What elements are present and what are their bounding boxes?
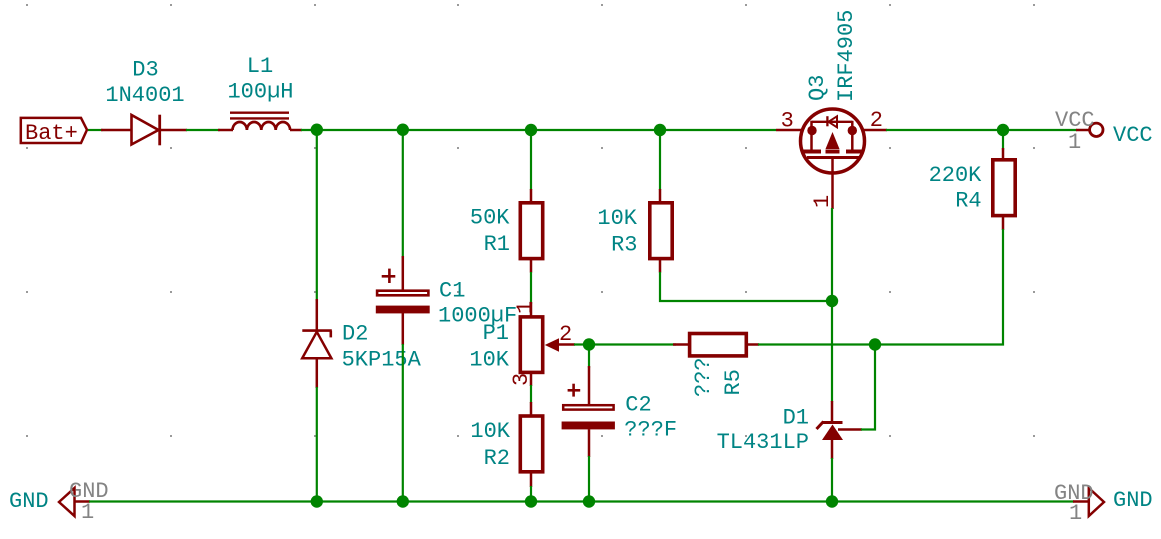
svg-text:C2: C2 [625, 393, 651, 418]
global label Bat+ [21, 118, 87, 146]
R4 reference label [955, 189, 981, 214]
wire C1 branch lower [402, 344, 404, 502]
wire Q3 pin2 to VCC [886, 129, 1077, 131]
svg-text:10K: 10K [469, 348, 509, 373]
junction gate node [826, 295, 838, 307]
D3 value label 1N4001 [105, 83, 184, 108]
wire D2 branch upper [316, 130, 318, 301]
R5 reference label [721, 369, 746, 395]
C1 value label 1000uF [438, 304, 517, 329]
svg-text:???F: ???F [624, 418, 677, 443]
resistor R2 [520, 402, 542, 487]
Q3 pin number 1 [810, 195, 835, 208]
svg-text:GND: GND [9, 489, 49, 514]
svg-text:C1: C1 [439, 279, 465, 304]
P1 reference label [483, 321, 509, 346]
svg-text:VCC: VCC [1113, 123, 1153, 148]
wire C2 bottom to rail [588, 456, 590, 502]
svg-text:50K: 50K [470, 206, 510, 231]
svg-text:R4: R4 [955, 189, 981, 214]
diode D3 [101, 115, 187, 146]
node GND label left [9, 489, 49, 514]
wire P1 to R2 [530, 385, 532, 403]
D2 reference label [342, 322, 368, 347]
shunt reference D1 TL431LP [817, 401, 863, 459]
junction top rail at C1 [397, 124, 409, 136]
capacitor C2 [562, 366, 615, 457]
wire R4 bottom to feedback node [877, 229, 1003, 345]
svg-text:R1: R1 [484, 232, 510, 257]
svg-text:D3: D3 [132, 58, 158, 83]
R3 reference label [611, 233, 637, 258]
svg-text:TL431LP: TL431LP [717, 430, 809, 455]
svg-text:R5: R5 [721, 369, 746, 395]
L1 value label 100uH [227, 80, 293, 105]
wire R2 bottom to rail [530, 486, 532, 502]
wire R3 top pin stub [659, 130, 661, 190]
svg-text:???: ??? [691, 357, 716, 397]
C2 value label ???F [624, 418, 677, 443]
C1 reference label [439, 279, 465, 304]
wire L1 to Q3 (top rail) [301, 129, 776, 131]
wire R4 top pin stub [1002, 130, 1004, 150]
junction bottom rail at D2 [311, 495, 323, 507]
node VCC label [1113, 123, 1153, 148]
Q3 pin number 2 [870, 108, 883, 133]
junction bottom rail at R2 [525, 495, 537, 507]
svg-text:1: 1 [810, 195, 835, 208]
wire C2 top stub [588, 345, 590, 369]
P1 pin number 3 [509, 373, 534, 386]
diode D2 (TVS) [302, 299, 332, 388]
D3 reference label [132, 58, 158, 83]
svg-text:2: 2 [870, 108, 883, 133]
GND left pin name [69, 479, 109, 504]
svg-text:P1: P1 [483, 321, 509, 346]
junction wiper node at C2 [583, 338, 595, 350]
svg-text:L1: L1 [247, 54, 273, 79]
Q3 reference label [805, 75, 830, 101]
power port GND right [1073, 488, 1104, 516]
inductor L1 [218, 113, 302, 130]
junction bottom rail at D1 [826, 495, 838, 507]
wire Bat+ to D3 [88, 129, 103, 131]
node GND label right [1113, 488, 1153, 513]
wire R3 bottom to Q3 gate node [660, 272, 832, 301]
GND right pin name [1054, 481, 1094, 506]
R5 value label ??? [691, 357, 716, 397]
svg-text:100µH: 100µH [227, 80, 293, 105]
wire gate node to D1 cathode [831, 301, 833, 402]
power port VCC [1076, 123, 1103, 136]
potentiometer P1 [520, 302, 575, 386]
svg-text:220K: 220K [929, 163, 983, 188]
wire D2 branch lower [316, 387, 318, 502]
wire R1 top pin stub [530, 130, 532, 190]
svg-text:Bat+: Bat+ [25, 121, 78, 146]
VCC pin name [1055, 108, 1095, 133]
R1 reference label [484, 232, 510, 257]
svg-text:R3: R3 [611, 233, 637, 258]
R2 reference label [484, 446, 510, 471]
svg-text:3: 3 [509, 373, 534, 386]
svg-text:1: 1 [81, 500, 94, 525]
R3 value label 10K [597, 206, 637, 231]
svg-text:R2: R2 [484, 446, 510, 471]
L1 reference label [247, 54, 273, 79]
wire R1 to P1 [530, 272, 532, 304]
wire D1 anode to rail [831, 458, 833, 502]
svg-text:5KP15A: 5KP15A [342, 348, 422, 373]
P1 pin number 1 [513, 301, 538, 314]
wire bottom rail [89, 500, 1074, 502]
svg-text:1: 1 [513, 301, 538, 314]
Q3 pin number 3 [781, 109, 794, 134]
resistor R5 [673, 334, 759, 356]
svg-text:Q3: Q3 [805, 75, 830, 101]
svg-text:D1: D1 [783, 406, 809, 431]
wire feedback node to D1 ref [861, 345, 875, 430]
svg-text:1: 1 [1069, 501, 1082, 526]
svg-text:2: 2 [559, 322, 572, 347]
R2 value label 10K [470, 419, 510, 444]
P1 value label 10K [469, 348, 509, 373]
GND right pin number 1 [1069, 501, 1082, 526]
svg-text:1: 1 [1068, 130, 1081, 155]
VCC pin number 1 [1068, 130, 1081, 155]
svg-text:3: 3 [781, 109, 794, 134]
junction bottom rail at C2 [583, 495, 595, 507]
svg-text:1N4001: 1N4001 [105, 83, 184, 108]
junction top rail at D2 [311, 124, 323, 136]
power port GND left [59, 488, 90, 516]
svg-text:GND: GND [1113, 488, 1153, 513]
D1 reference label [783, 406, 809, 431]
D1 value label TL431LP [717, 430, 809, 455]
wire P1 wiper to R5 [574, 343, 676, 345]
junction bottom rail at C1 [397, 495, 409, 507]
junction top rail at R3 [654, 124, 666, 136]
junction top rail at R1 [525, 124, 537, 136]
resistor R1 [520, 189, 542, 273]
wire C1 branch upper [402, 130, 404, 258]
svg-text:10K: 10K [470, 419, 510, 444]
R1 value label 50K [470, 206, 510, 231]
transistor Q3 IRF4905 [776, 109, 887, 209]
svg-text:D2: D2 [342, 322, 368, 347]
Q3 value label IRF4905 [834, 10, 859, 102]
junction top rail at R4 [997, 124, 1009, 136]
junction feedback node [869, 338, 881, 350]
D2 value label 5KP15A [342, 348, 422, 373]
P1 pin number 2 [559, 322, 572, 347]
capacitor C1 [376, 256, 430, 345]
wire Q3 pin1 to gate node [831, 208, 833, 301]
C2 reference label [625, 393, 651, 418]
svg-text:IRF4905: IRF4905 [834, 10, 859, 102]
GND left pin number 1 [81, 500, 94, 525]
R4 value label 220K [929, 163, 983, 188]
svg-text:10K: 10K [597, 206, 637, 231]
resistor R4 [993, 148, 1015, 230]
wire D3 to L1 [186, 129, 220, 131]
wire R5 to feedback node [758, 343, 877, 345]
resistor R3 [650, 189, 672, 273]
